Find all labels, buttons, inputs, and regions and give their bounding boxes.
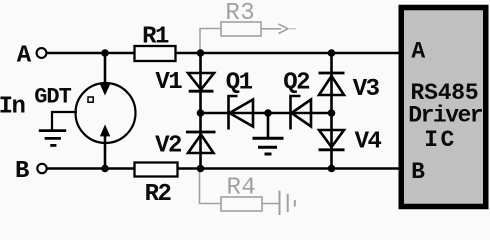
node mid right branch xyxy=(328,109,336,117)
diode V3 xyxy=(319,72,345,75)
wire right diode branch xyxy=(330,53,333,169)
svg-text:Q2: Q2 xyxy=(283,70,309,97)
R4 ground symbol (rotated) xyxy=(262,203,280,205)
wire left diode branch xyxy=(199,53,202,169)
ground (center) xyxy=(253,137,284,140)
svg-text:R4: R4 xyxy=(226,174,256,201)
svg-text:B: B xyxy=(15,158,29,185)
svg-text:R2: R2 xyxy=(145,181,171,208)
svg-text:In: In xyxy=(0,93,24,120)
svg-text:V2: V2 xyxy=(155,132,181,159)
svg-text:A: A xyxy=(17,43,32,70)
GDT bottom electrode xyxy=(104,136,107,169)
diode V4 xyxy=(319,130,344,147)
wire middle rail xyxy=(200,112,331,115)
terminal A xyxy=(37,48,47,58)
svg-text:Driver: Driver xyxy=(408,103,483,129)
GDT third electrode square xyxy=(88,97,93,102)
GDT circle xyxy=(76,83,136,143)
diode V1 xyxy=(188,73,214,90)
node center ground xyxy=(264,109,272,117)
svg-text:A: A xyxy=(411,39,425,65)
thyristor Q1 xyxy=(229,96,238,130)
resistor R3 gray net wire xyxy=(200,29,221,52)
wire top rail A xyxy=(47,52,401,55)
resistor R4 gray net wire xyxy=(200,170,222,204)
svg-text:Q1: Q1 xyxy=(226,70,253,97)
svg-text:V3: V3 xyxy=(353,76,380,103)
svg-text:R1: R1 xyxy=(142,24,169,51)
svg-text:GDT: GDT xyxy=(34,85,71,110)
node bottom right branch xyxy=(328,165,336,173)
diode V2 xyxy=(186,131,216,134)
node bottom GDT junction xyxy=(101,165,109,173)
resistor R3 body xyxy=(221,22,261,36)
wire bottom rail B xyxy=(47,167,401,170)
node top left branch xyxy=(197,49,205,57)
terminal B xyxy=(37,164,46,173)
resistor R4 body xyxy=(221,197,262,211)
node bottom left branch xyxy=(197,165,205,173)
svg-text:IC: IC xyxy=(424,127,457,153)
svg-text:V4: V4 xyxy=(355,129,382,156)
resistor R2 xyxy=(135,163,178,177)
ground (center) wire xyxy=(267,113,270,137)
resistor R1 xyxy=(135,46,176,61)
thyristor Q2 xyxy=(291,96,301,130)
R3 output arrow to VCC xyxy=(261,28,281,30)
GDT top electrode xyxy=(104,53,107,85)
node mid left branch xyxy=(197,109,205,117)
node top right branch xyxy=(328,49,336,57)
RS485 driver IC box xyxy=(401,8,486,207)
GDT ground tap wire xyxy=(52,112,77,130)
node top GDT junction xyxy=(101,49,109,57)
ground (GDT) xyxy=(39,129,66,132)
svg-text:R3: R3 xyxy=(225,0,255,27)
svg-text:V1: V1 xyxy=(155,69,182,96)
svg-text:B: B xyxy=(411,159,425,185)
